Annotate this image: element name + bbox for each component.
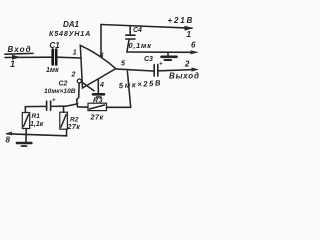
node: +21V arrow terminal	[185, 26, 194, 31]
svg-text:4: 4	[99, 82, 104, 89]
resistor R2	[63, 106, 65, 112]
node: input label Вход	[8, 45, 32, 54]
svg-text:10мк×10В: 10мк×10В	[44, 88, 76, 95]
wire pin8 up	[100, 25, 102, 57]
wire R3 right to output	[107, 106, 131, 108]
op-amp U1 triangle	[80, 45, 116, 88]
wire C1 to op-amp	[58, 56, 82, 59]
svg-text:R3: R3	[93, 97, 103, 104]
op-amp pin 4 label	[99, 82, 104, 89]
svg-text:1мк: 1мк	[46, 67, 59, 74]
wire op-amp output	[116, 69, 153, 71]
svg-text:1,1к: 1,1к	[30, 121, 44, 128]
svg-text:2: 2	[184, 60, 190, 69]
node: terminal 8 arrow (left)	[5, 132, 12, 136]
svg-text:6: 6	[191, 41, 196, 50]
node: input arrow terminal	[12, 55, 20, 60]
wire feedback bus right	[52, 105, 66, 107]
capacitor C4	[129, 26, 131, 35]
svg-text:С4: С4	[133, 27, 142, 34]
node: terminal 2 label	[184, 60, 190, 69]
wire feedback bus left	[25, 105, 45, 107]
svg-text:5: 5	[121, 60, 125, 67]
resistor R1	[24, 107, 26, 113]
svg-text:27к: 27к	[90, 113, 104, 122]
ground on rail 6	[167, 52, 169, 55]
node: terminal 1 label	[187, 30, 192, 39]
wire R2 bottom	[66, 129, 68, 136]
op-amp pin 1 label	[73, 50, 77, 57]
ground under R1	[17, 142, 31, 145]
svg-text:С2: С2	[59, 81, 68, 88]
svg-text:27к: 27к	[67, 122, 81, 131]
svg-text:0,1мк: 0,1мк	[129, 41, 152, 50]
node: terminal 8 label	[6, 136, 11, 145]
svg-text:+21В: +21В	[168, 16, 195, 25]
node: pin2 junction circle	[77, 79, 81, 83]
svg-text:1: 1	[187, 30, 192, 39]
wire pin3 to ground diagonal	[82, 82, 94, 91]
node: input pin number 1	[10, 59, 15, 69]
svg-text:К548УН1А: К548УН1А	[49, 29, 91, 38]
capacitor C1	[51, 50, 54, 65]
wire top rail to +21V	[101, 25, 192, 29]
wire R1 bottom to ground	[25, 129, 27, 142]
svg-text:С1: С1	[50, 41, 61, 50]
resistor R3	[78, 106, 88, 108]
wire pin4 down	[97, 79, 99, 93]
svg-text:С3: С3	[144, 56, 153, 63]
ground under op-amp	[93, 93, 104, 96]
svg-text:+: +	[159, 62, 163, 68]
svg-text:8: 8	[6, 136, 11, 145]
wire bottom rail	[7, 134, 67, 136]
svg-text:Вход: Вход	[8, 45, 32, 54]
op-amp pin 8 label	[100, 53, 104, 60]
svg-text:1: 1	[73, 50, 77, 57]
capacitor C2	[59, 81, 68, 88]
svg-text:+: +	[52, 98, 56, 104]
op-amp pin 2 label	[71, 72, 76, 79]
op-amp DA1 label	[63, 20, 80, 29]
node: output arrow terminal 2	[192, 67, 199, 71]
wire input underline	[5, 52, 33, 55]
node: terminal 6 arrow	[191, 50, 199, 54]
wire pin2 down to feedback node	[77, 83, 80, 106]
svg-text:2: 2	[71, 72, 76, 79]
capacitor C3 value	[119, 78, 163, 90]
node: terminal 6 label	[191, 41, 196, 50]
svg-text:Выход: Выход	[169, 72, 200, 81]
node: Выход label	[169, 72, 200, 81]
wire C3 to output arrow	[159, 70, 193, 71]
node: +21V label	[168, 16, 195, 25]
wire rail 6	[127, 51, 192, 53]
svg-text:R1: R1	[32, 113, 41, 120]
op-amp pin 5 label	[121, 60, 125, 67]
capacitor C3	[153, 65, 155, 77]
op-amp part number К548УН1А	[49, 29, 91, 38]
wire input line left	[5, 56, 52, 58]
svg-text:DA1: DA1	[63, 20, 80, 29]
svg-text:1: 1	[10, 59, 15, 69]
